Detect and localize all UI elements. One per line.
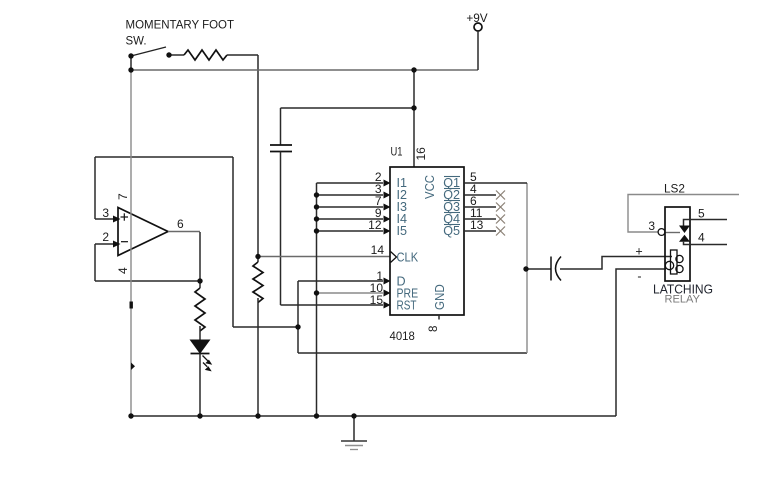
capacitor C2 [551,257,561,281]
svg-text:Q5: Q5 [443,224,460,238]
svg-text:6: 6 [177,217,184,231]
wire Q5 stub [464,230,496,232]
capacitor C1 [270,145,292,152]
wire Q3 stub [464,206,496,208]
wire [233,326,298,328]
wire Q1 rail [526,183,528,353]
wire [560,257,672,270]
wire RST net [281,304,384,306]
wire I4 [317,218,384,220]
svg-text:RST: RST [397,299,417,313]
resistor R3 [253,262,263,303]
wire [280,108,282,145]
wire [413,70,415,167]
no-connect X Q5 [496,227,505,236]
wire mark [131,363,135,371]
wire Q4 stub [464,218,496,220]
wire [95,280,200,282]
IC U1 pin numbers left [368,170,384,307]
svg-text:3: 3 [102,206,109,220]
op-amp U2 [118,208,168,256]
wire pin7 pin4 vertical [130,70,132,416]
resistor R1 [184,50,227,60]
wire [130,54,132,70]
pin 3 arrow [113,216,121,223]
svg-text:CLK: CLK [397,251,419,265]
svg-text:5: 5 [698,207,705,221]
IC U1 pin labels [397,175,461,313]
IC U1 pin numbers right [470,170,484,232]
wire [199,232,201,288]
wire pin 4 [684,242,728,245]
LED D1 [191,340,213,371]
wire CLK net [258,256,390,258]
svg-text:LS2: LS2 [664,182,685,196]
wire inputs bus [316,183,318,416]
svg-text:2: 2 [102,230,109,244]
wire pin 6 output [168,231,200,233]
wire [477,31,479,70]
wire [199,354,201,417]
svg-text:16: 16 [414,147,428,161]
wire [257,55,259,257]
svg-text:+: + [635,245,642,259]
wire [199,326,201,340]
svg-text:8: 8 [428,326,440,332]
switch SW1 lever [131,47,166,56]
relay contact up arrow [679,235,690,242]
relay coil [665,250,683,274]
wire [281,107,415,109]
wire [232,157,234,327]
pin 2 arrow [113,241,121,248]
wire [94,157,96,219]
wire [298,352,527,354]
wire [169,54,184,56]
wire I5 [317,230,384,232]
svg-text:U1: U1 [391,146,403,158]
svg-text:3: 3 [648,219,655,233]
svg-text:I5: I5 [397,224,408,238]
svg-text:GND: GND [433,284,447,310]
wire ground rail [131,415,616,417]
svg-text:RELAY: RELAY [665,293,701,305]
svg-text:4: 4 [116,267,130,274]
wire I2 [317,194,384,196]
svg-text:4: 4 [698,231,705,245]
svg-text:13: 13 [470,218,484,232]
IC U1 input arrows [384,180,391,309]
wire I3 [317,206,384,208]
wire op-amp feedback top [95,156,233,158]
op-amp plus minus marks [121,213,129,241]
no-connect X Q3 [496,203,505,212]
ground [341,441,367,450]
svg-text:7: 7 [116,193,130,200]
wire Q2 stub [464,194,496,196]
wire I1 [317,182,384,184]
relay LS2 box [665,207,690,281]
svg-text:14: 14 [371,243,385,257]
wire D net [298,280,383,282]
relay terminal 3 circle [658,229,665,236]
no-connect X Q2 [496,191,505,200]
IC U1 box [390,167,464,315]
svg-text:12: 12 [368,218,382,232]
wire ground stub [353,416,355,441]
relay contact down arrow [679,226,690,234]
no-connect X Q4 [496,215,505,224]
wire pin 3 [95,218,114,220]
IC U1 CLK chevron [391,252,397,263]
wire mark [130,302,133,309]
svg-text:15: 15 [370,293,384,307]
wire PRE net [317,292,384,294]
svg-text:VCC: VCC [423,175,437,199]
wire minus lead [616,269,666,416]
svg-text:4018: 4018 [390,331,415,343]
wire LS2 top [628,195,739,233]
svg-text:-: - [637,270,641,284]
IC U1 GND stub [438,315,440,320]
wire pin 2 [95,243,114,245]
wire Q1 pin 5 [464,182,527,184]
wire [227,54,258,56]
wire [526,268,551,270]
IC U1 Q overlines [444,177,460,225]
svg-text:MOMENTARY FOOT: MOMENTARY FOOT [126,17,235,31]
resistor R2 [195,288,205,331]
label MOMENTARY FOOT SW. [126,17,235,47]
wire pin 5 [684,220,728,226]
wire [665,232,680,234]
svg-text:SW.: SW. [126,33,147,47]
wire [257,257,259,263]
wire [131,69,478,71]
wire [94,244,96,281]
power +9V [466,11,487,31]
wire [297,281,299,353]
wire [280,152,282,306]
wire [257,298,259,416]
